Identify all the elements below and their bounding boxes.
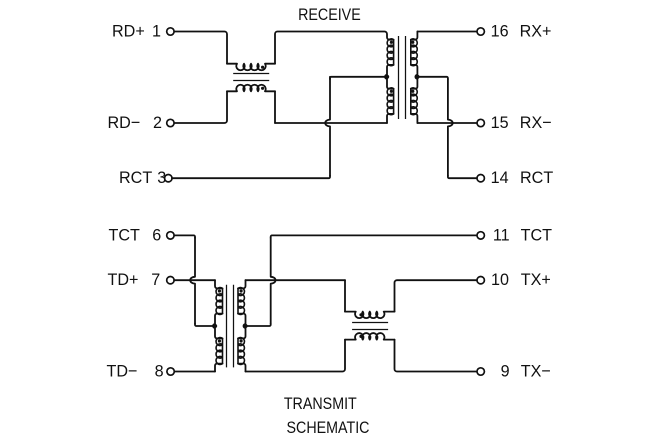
T2 lower-left exit <box>215 364 223 372</box>
T1 lower-right winding <box>411 88 417 115</box>
wire pin2 to choke <box>174 91 227 123</box>
phase dot CM1 top <box>261 66 264 69</box>
svg-text:TD+: TD+ <box>108 270 139 289</box>
wire to pin14 <box>448 176 477 179</box>
svg-text:6: 6 <box>152 225 161 244</box>
svg-text:RD−: RD− <box>108 113 141 132</box>
T1 upper-right entry <box>411 32 418 40</box>
svg-text:1: 1 <box>152 21 161 40</box>
wire RCT right vertical with hop <box>448 79 453 176</box>
pin 16 terminal <box>477 28 484 35</box>
junction T1 right center tap <box>415 75 419 79</box>
junction T2 right center tap <box>243 324 247 328</box>
svg-text:14: 14 <box>491 168 509 187</box>
pin 2 terminal <box>167 119 174 126</box>
T1 left link to center tap <box>385 65 394 89</box>
phase dot T1 lower-right <box>411 90 414 93</box>
svg-text:RECEIVE: RECEIVE <box>298 6 361 24</box>
wire into CM2 top left <box>344 280 346 311</box>
phase dot T2 lower-right <box>240 339 243 342</box>
wire to pin11 <box>271 235 477 238</box>
choke CM2 bottom winding <box>345 333 395 340</box>
wire RD- choke to T1 <box>275 122 387 124</box>
wire T2 to choke CM2 top <box>246 279 346 281</box>
svg-text:TRANSMIT: TRANSMIT <box>284 395 357 413</box>
svg-text:15: 15 <box>491 113 509 132</box>
wire T1 to pin15 <box>417 122 477 124</box>
pin 15 terminal <box>477 119 484 126</box>
pin 14 terminal <box>477 175 484 182</box>
core CM1 <box>233 74 269 81</box>
svg-text:11: 11 <box>493 225 510 244</box>
svg-text:2: 2 <box>153 113 162 132</box>
T2 lower-right winding <box>238 338 244 365</box>
svg-text:10: 10 <box>491 270 509 289</box>
T2 left link to center tap <box>213 314 223 339</box>
wire pin11 vertical with hop <box>271 238 276 324</box>
T2 upper-right entry <box>238 280 246 288</box>
wire RCT left to center tap <box>330 77 387 80</box>
wire pin1 to choke <box>174 32 227 64</box>
svg-text:7: 7 <box>151 270 160 289</box>
svg-text:SCHEMATIC: SCHEMATIC <box>287 419 370 437</box>
wire RCT left vertical with hop <box>325 77 330 176</box>
wire TCT to center tap <box>195 324 215 327</box>
wire pin8 to T2 <box>175 371 216 373</box>
T2 lower-left winding <box>216 338 222 365</box>
pin 3 terminal <box>165 175 172 182</box>
svg-text:16: 16 <box>491 21 509 40</box>
svg-text:TCT: TCT <box>521 225 552 244</box>
pin 7 terminal <box>167 277 174 284</box>
phase dot CM2 top <box>359 313 362 316</box>
svg-text:8: 8 <box>155 361 164 380</box>
phase dot T1 lower-left <box>390 90 393 93</box>
junction T2 left center tap <box>213 324 217 328</box>
phase dot T2 upper-right <box>240 289 243 292</box>
choke CM2 top winding <box>345 312 395 319</box>
phase dot T2 lower-left <box>218 339 221 342</box>
svg-text:RX−: RX− <box>520 113 552 132</box>
svg-text:TD−: TD− <box>107 361 138 380</box>
wire pin6 horizontal <box>174 235 195 238</box>
wire T1 to pin16 <box>417 31 477 33</box>
T1 upper-right winding <box>411 39 417 66</box>
wire pin7 to T2 <box>174 279 215 281</box>
T2 upper-left entry <box>215 280 223 288</box>
svg-text:RCT: RCT <box>520 168 553 187</box>
wire pin3 horizontal <box>172 176 330 179</box>
wire T2 lower to CM2 bottom <box>246 340 346 372</box>
phase dot T1 upper-left <box>390 41 393 44</box>
wire TCT vertical with hop <box>190 238 195 324</box>
phase dot CM1 bottom <box>261 87 264 90</box>
choke CM1 bottom winding <box>227 85 275 92</box>
svg-text:RX+: RX+ <box>520 21 552 40</box>
T1 right link to center tap <box>411 65 418 89</box>
T2 upper-right winding <box>238 288 244 315</box>
wire choke top right up to T1 <box>275 32 394 64</box>
pin 11 terminal <box>477 232 484 239</box>
T2 right link to center tap <box>238 314 246 339</box>
phase dot CM2 bottom <box>359 335 362 338</box>
pin 9 terminal <box>477 368 484 375</box>
phase dot T2 upper-left <box>218 289 221 292</box>
T1 lower-right exit <box>411 114 418 123</box>
T1 lower-left winding <box>387 88 393 115</box>
svg-text:9: 9 <box>501 361 510 380</box>
core CM2 <box>352 323 388 330</box>
junction T1 left center tap <box>385 75 389 79</box>
pin 1 terminal <box>167 28 174 35</box>
svg-text:TX−: TX− <box>521 361 551 380</box>
wire T1 right center tap over <box>417 77 448 80</box>
wire CM2 bottom right to pin9 <box>395 340 477 372</box>
svg-text:RCT: RCT <box>119 168 152 187</box>
wire T2 right center tap over <box>246 324 271 327</box>
transformer T1 core <box>399 36 406 119</box>
svg-text:RD+: RD+ <box>112 21 145 40</box>
pin 6 terminal <box>167 232 174 239</box>
svg-text:TCT: TCT <box>109 225 140 244</box>
pin 8 terminal <box>167 368 174 375</box>
phase dot T1 upper-right <box>411 41 414 44</box>
transformer T2 core <box>227 285 234 368</box>
T1 lower-left exit <box>387 114 394 123</box>
pin 10 terminal <box>477 277 484 284</box>
T2 lower-right exit <box>238 364 246 372</box>
wire CM2 top right to pin10 <box>395 280 477 311</box>
wire choke bottom right to transformer <box>274 91 276 123</box>
T1 upper-left winding <box>387 39 393 66</box>
T2 upper-left winding <box>216 288 222 315</box>
choke CM1 top winding <box>227 64 275 71</box>
svg-text:TX+: TX+ <box>521 270 551 289</box>
